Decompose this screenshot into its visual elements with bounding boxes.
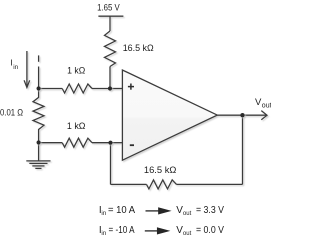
ground bar 2 [29, 162, 47, 164]
svg-text:in: in [13, 64, 18, 71]
node output junction [240, 113, 244, 117]
ground bar 3 [32, 165, 44, 167]
Iin current arrow line [26, 51, 28, 87]
output arrow line [243, 114, 267, 116]
svg-text:in: in [101, 210, 106, 217]
svg-text:1 kΩ: 1 kΩ [67, 121, 86, 131]
svg-text:0.01 Ω: 0.01 Ω [0, 107, 23, 117]
wire R1k to plus node [92, 88, 110, 90]
feedback wire down from output node [242, 115, 244, 184]
svg-text:= 3.3 V: = 3.3 V [196, 205, 224, 216]
node plus junction [108, 86, 112, 90]
wire ground node to R1k bottom [39, 142, 63, 144]
op-amp minus sign [130, 144, 134, 146]
svg-text:out: out [262, 102, 271, 109]
wire R1k to minus node [92, 142, 111, 144]
wire rail to R16.5k [109, 16, 111, 31]
resistor R 1k bottom [62, 138, 92, 147]
annotation arrow 2 [145, 228, 168, 234]
output wire [217, 114, 242, 116]
node ground junction [37, 140, 41, 144]
Iin arrowhead [24, 80, 30, 87]
feedback wire bottom left [111, 183, 147, 185]
resistor R 16.5k feedback [147, 180, 177, 189]
wire left node to R1k top [39, 88, 63, 90]
annotation arrow 1 [146, 208, 170, 214]
input stub dash [38, 55, 40, 61]
ground stem [38, 143, 40, 161]
feedback wire bottom right [177, 183, 243, 185]
wire plus node to op-amp [110, 88, 122, 90]
feedback wire up to minus node [110, 143, 112, 185]
svg-text:= 0.0 V: = 0.0 V [196, 225, 224, 236]
wire R16.5k to plus node [109, 67, 111, 89]
svg-text:1.65 V: 1.65 V [97, 2, 120, 12]
ground bar 1 [26, 160, 50, 162]
svg-text:in: in [101, 230, 106, 237]
resistor R 16.5k vertical [105, 31, 116, 67]
node minus junction [108, 141, 112, 145]
svg-text:16.5 kΩ: 16.5 kΩ [144, 165, 177, 175]
svg-text:= 10 A: = 10 A [108, 205, 135, 216]
op-amp plus sign [128, 84, 134, 90]
svg-text:16.5 kΩ: 16.5 kΩ [123, 43, 154, 53]
ground bar 4 [35, 167, 41, 169]
svg-text:1 kΩ: 1 kΩ [67, 65, 85, 75]
op-amp U1 [122, 70, 217, 160]
resistor R 1k top [62, 84, 92, 93]
svg-text:= -10 A: = -10 A [109, 225, 135, 236]
wire minus node to op-amp [111, 142, 123, 144]
svg-text:out: out [183, 231, 192, 237]
node input left [37, 86, 41, 90]
input stub wire [38, 67, 40, 89]
output arrowhead [261, 111, 267, 120]
resistor R 0.01 vertical with leads [33, 89, 44, 143]
svg-text:out: out [183, 211, 192, 217]
supply rail bar 1.65V [98, 15, 123, 17]
